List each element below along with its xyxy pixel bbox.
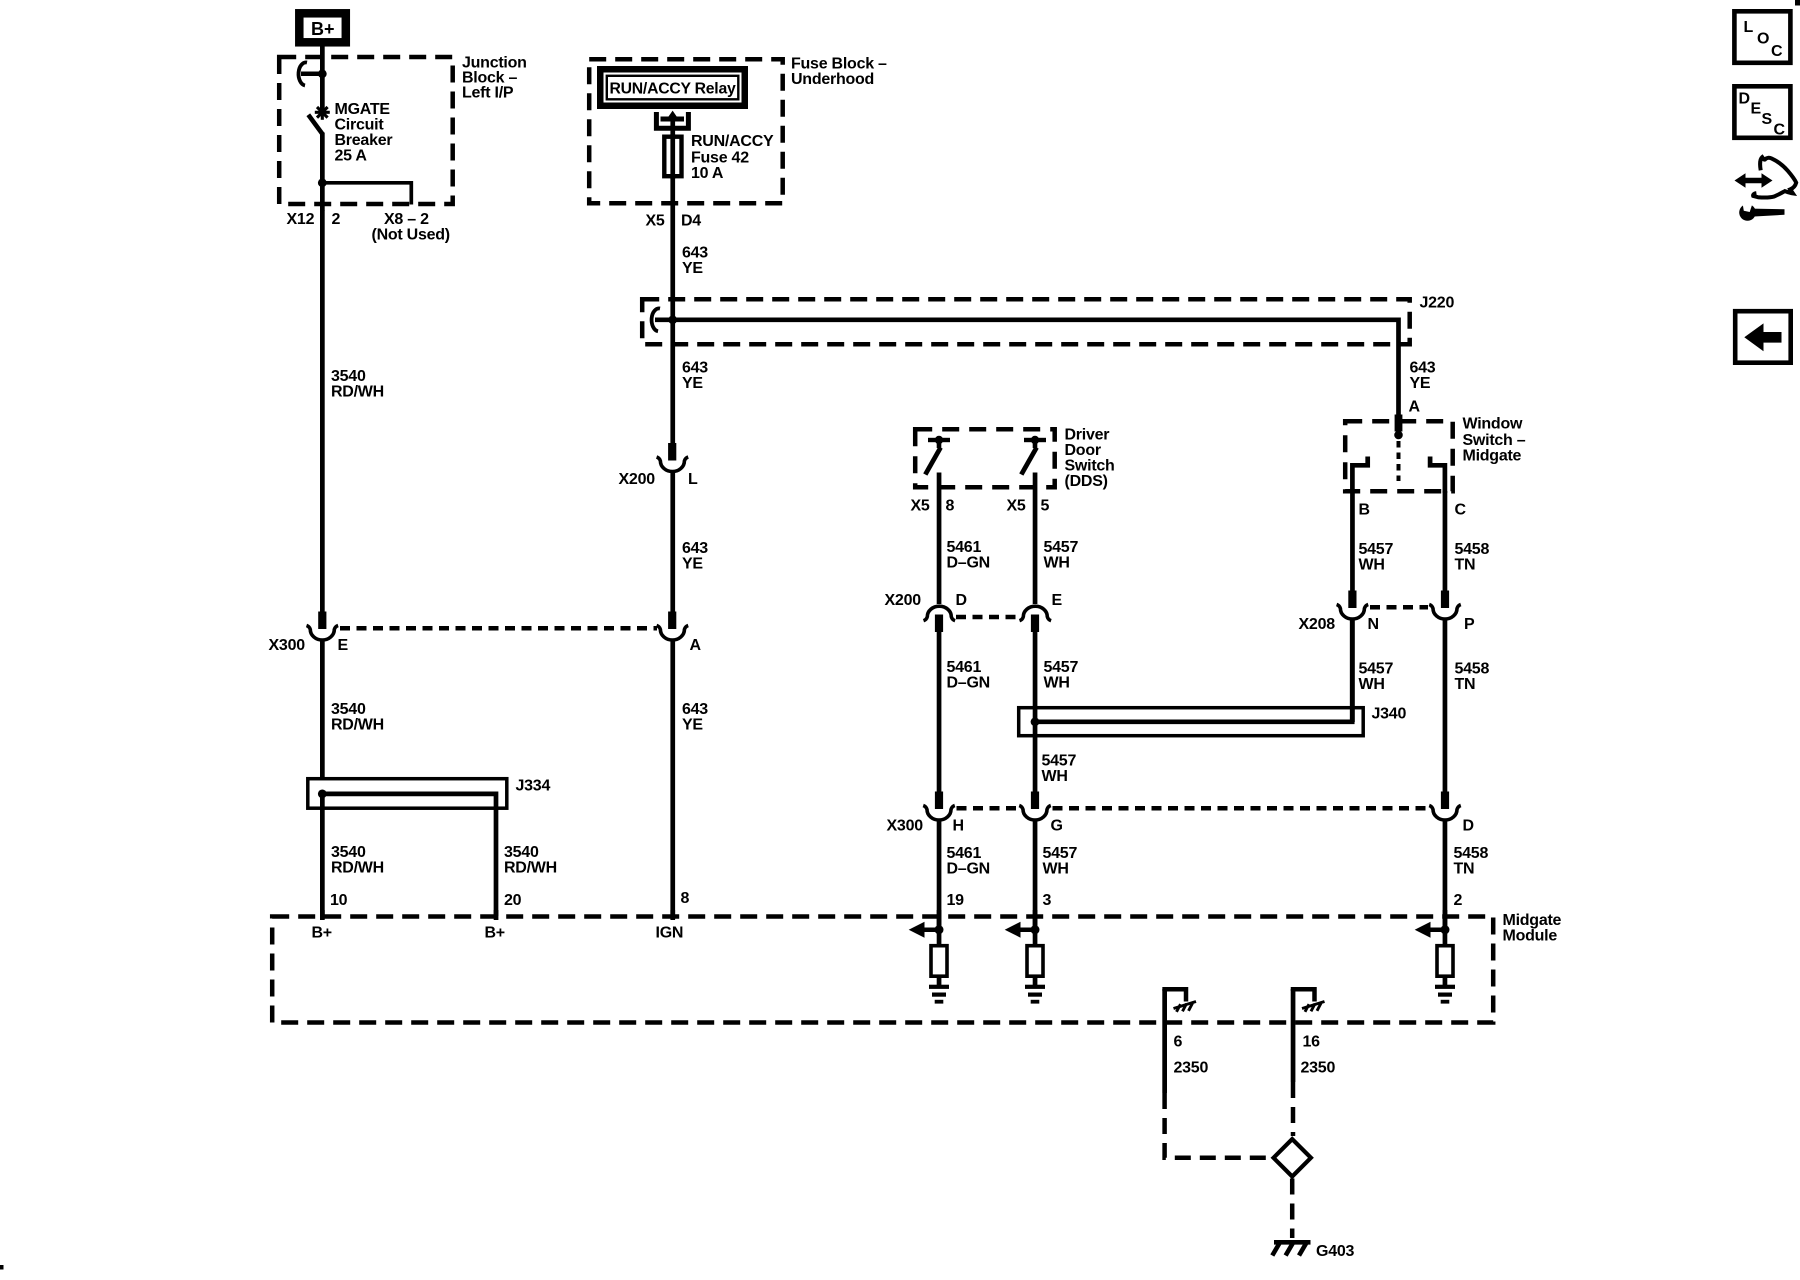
connector X200 pin L (pin + cup) xyxy=(657,443,689,472)
wire: left switch to X5-8 xyxy=(937,473,942,605)
svg-text:B: B xyxy=(1359,502,1370,519)
svg-text:6: 6 xyxy=(1174,1034,1183,1051)
wire 643 YE: X300-A to pin 8 xyxy=(670,639,675,919)
wire: pin 16 lead (solid) xyxy=(1291,989,1296,1082)
node: J334 splice dot xyxy=(318,790,327,799)
module input pin 19: wire, arrow, dot xyxy=(909,910,944,938)
svg-text:(Not Used): (Not Used) xyxy=(372,227,450,244)
pin A entry mark xyxy=(1395,415,1403,432)
load resistor (pin 2) xyxy=(1437,946,1453,977)
junction block - Left I/P (dashed box) xyxy=(279,57,453,204)
svg-text:TN: TN xyxy=(1454,861,1475,878)
wire label 3540 RD/WH xyxy=(331,701,384,734)
svg-text:WH: WH xyxy=(1359,557,1385,574)
wire to ground (pin 2) xyxy=(1443,931,1448,945)
sidebar icon LOC xyxy=(1734,11,1790,63)
load resistor (pin 19) xyxy=(931,946,947,977)
svg-text:RD/WH: RD/WH xyxy=(331,384,384,401)
svg-text:RUN/ACCY: RUN/ACCY xyxy=(691,133,774,150)
node: J220 splice dot xyxy=(668,315,677,324)
svg-text:G403: G403 xyxy=(1316,1243,1354,1260)
svg-text:D: D xyxy=(1739,91,1750,108)
svg-text:5457: 5457 xyxy=(1043,845,1078,862)
relay output contact symbol xyxy=(656,111,688,129)
dashed wire: splice to G403 xyxy=(1290,1179,1295,1239)
splice diamond xyxy=(1274,1139,1311,1176)
circuit numbers 2350 / 2350 xyxy=(1174,1060,1336,1077)
connector X200 pin E (dome + pin below) xyxy=(1020,606,1052,632)
node: junction dot at top of breaker xyxy=(318,69,327,78)
wire 5458: C to X208-P xyxy=(1443,491,1448,591)
wire label 643 YE (right of J220) xyxy=(1410,360,1436,393)
pin numbers 6 / 16 xyxy=(1174,1034,1321,1051)
wire label 5457 WH xyxy=(1044,539,1079,572)
internal ground (pin 19) xyxy=(929,985,949,1004)
wire: J220 down to X200-L xyxy=(670,322,675,444)
wire labels 5457 WH / 5458 TN xyxy=(1359,661,1490,694)
wire label 643 YE (left below J220) xyxy=(682,360,708,393)
wire: J334 down to pin 10 xyxy=(320,794,325,919)
switch contact (right, pin 5) xyxy=(1021,436,1046,475)
pin numbers 19 / 3 xyxy=(947,892,1052,909)
battery feed B+ xyxy=(299,13,346,42)
svg-text:2350: 2350 xyxy=(1174,1060,1209,1077)
svg-text:Door: Door xyxy=(1065,442,1101,459)
junction block label xyxy=(462,55,527,102)
svg-text:X5: X5 xyxy=(646,213,665,230)
svg-text:X8 – 2: X8 – 2 xyxy=(384,211,429,228)
svg-text:3540: 3540 xyxy=(331,701,366,718)
svg-text:X200: X200 xyxy=(619,471,656,488)
connector X300 pin A (pin + cup) xyxy=(657,612,689,641)
dashed mate line X208 N to P xyxy=(1370,605,1428,610)
switch throw contact B (bracket) xyxy=(1352,457,1367,494)
svg-text:D: D xyxy=(1463,818,1474,835)
internal ground (pin 2) xyxy=(1435,985,1455,1004)
svg-text:Circuit: Circuit xyxy=(335,117,385,134)
svg-text:5: 5 xyxy=(1041,498,1050,515)
svg-text:Fuse 42: Fuse 42 xyxy=(691,150,749,167)
wire 5457: X200-E down through J340 to X300-G xyxy=(1033,632,1038,792)
svg-text:8: 8 xyxy=(946,498,955,515)
sidebar icon diagnostic (arrow / wrench) xyxy=(1735,157,1797,221)
svg-text:2: 2 xyxy=(1454,892,1463,909)
internal ground (pin 3) xyxy=(1025,985,1045,1004)
node: branch dot to X8-2 xyxy=(318,178,327,187)
svg-text:5461: 5461 xyxy=(947,659,982,676)
svg-text:TN: TN xyxy=(1455,557,1476,574)
svg-text:RD/WH: RD/WH xyxy=(331,860,384,877)
svg-text:C: C xyxy=(1455,502,1467,519)
wire: J220 horizontal run 643 YE xyxy=(655,320,1399,435)
pin numbers 10 / 20 xyxy=(330,892,522,909)
breaker label xyxy=(335,101,393,165)
svg-text:3: 3 xyxy=(1043,892,1052,909)
svg-text:WH: WH xyxy=(1042,768,1068,785)
wire label 643 YE xyxy=(682,540,708,573)
svg-text:5458: 5458 xyxy=(1455,661,1490,678)
svg-text:E: E xyxy=(1052,592,1063,609)
ground lead pin 6: hook and chassis icon xyxy=(1165,989,1196,1012)
relay box RUN/ACCY Relay xyxy=(597,66,748,109)
wire: right switch to X5-5 xyxy=(1033,473,1038,605)
svg-text:J334: J334 xyxy=(516,778,551,795)
svg-text:B+: B+ xyxy=(311,19,335,39)
wire label 5461 D-GN xyxy=(947,539,990,572)
X300 row labels xyxy=(887,818,1474,835)
hook symbol (wire continues) at junction xyxy=(299,62,322,85)
midgate module (dashed box) xyxy=(272,917,1493,1023)
connector X300 pin H (pin + cup) xyxy=(923,792,955,821)
wire label 3540 RD/WH xyxy=(331,368,384,401)
svg-text:E: E xyxy=(1751,101,1762,118)
svg-text:S: S xyxy=(1762,111,1773,128)
wire: J334 branch to pin 20 xyxy=(322,794,496,916)
fuse label xyxy=(691,133,774,182)
page corner mark xyxy=(1795,0,1800,6)
svg-text:G: G xyxy=(1051,818,1063,835)
wire 5457: X300-G to pin 3 xyxy=(1033,819,1038,932)
circuit breaker MGATE 25A xyxy=(308,105,330,135)
sidebar icon back-arrow xyxy=(1735,311,1791,363)
svg-text:L: L xyxy=(1744,19,1754,36)
node: switch common dot (pin A) xyxy=(1394,431,1403,440)
svg-text:5458: 5458 xyxy=(1455,541,1490,558)
switch throw contact C (bracket) xyxy=(1430,457,1445,494)
svg-text:C: C xyxy=(1774,122,1786,139)
hook symbol at J220 wire end xyxy=(652,308,660,331)
svg-text:5461: 5461 xyxy=(947,845,982,862)
svg-text:Switch: Switch xyxy=(1065,458,1115,475)
svg-text:P: P xyxy=(1464,616,1475,633)
svg-text:B+: B+ xyxy=(485,925,505,942)
dashed mate line X300 E to A xyxy=(340,626,657,631)
dashed wire: pin 16 to splice xyxy=(1291,1082,1296,1136)
svg-text:D–GN: D–GN xyxy=(947,861,990,878)
wire label 5457 WH xyxy=(1044,659,1079,692)
svg-text:20: 20 xyxy=(504,892,522,909)
splice pack J220 (dashed box) xyxy=(642,299,1409,344)
svg-text:5458: 5458 xyxy=(1454,845,1489,862)
svg-text:YE: YE xyxy=(682,556,703,573)
DDS label xyxy=(1065,427,1115,491)
splice J334 (box) xyxy=(308,779,507,809)
connector X208 pin P (pin + cup) xyxy=(1429,591,1461,620)
svg-text:J220: J220 xyxy=(1420,295,1455,312)
node: J340 splice dot xyxy=(1031,717,1040,726)
wire: breaker to X12-2 xyxy=(320,133,325,211)
svg-text:Underhood: Underhood xyxy=(791,71,874,88)
svg-text:YE: YE xyxy=(1410,375,1431,392)
dashed wire: pin 6 to splice xyxy=(1165,1093,1271,1158)
wire label 5458 TN xyxy=(1454,845,1489,878)
wire label 5457 WH (below J340) xyxy=(1042,753,1077,786)
sidebar icon DESC xyxy=(1734,86,1790,138)
wire 5458: X208-P to X300-D xyxy=(1443,618,1448,792)
svg-text:WH: WH xyxy=(1044,675,1070,692)
svg-text:TN: TN xyxy=(1455,676,1476,693)
svg-text:Breaker: Breaker xyxy=(335,132,393,149)
svg-text:(DDS): (DDS) xyxy=(1065,473,1108,490)
svg-text:IGN: IGN xyxy=(656,925,684,942)
pin labels X12 2 / X8-2 xyxy=(287,211,450,244)
window switch label xyxy=(1463,416,1526,465)
svg-text:643: 643 xyxy=(682,540,708,557)
svg-text:10: 10 xyxy=(330,892,348,909)
X300 row labels xyxy=(269,637,349,654)
svg-text:Module: Module xyxy=(1503,927,1558,944)
svg-text:J340: J340 xyxy=(1372,706,1407,723)
connector X300 pin D (pin + cup) xyxy=(1429,792,1461,821)
svg-text:5461: 5461 xyxy=(947,539,982,556)
svg-text:10 A: 10 A xyxy=(691,165,724,182)
page edge speck xyxy=(0,1265,4,1270)
fuse 42 (RUN/ACCY 10A) xyxy=(664,134,681,179)
svg-text:Midgate: Midgate xyxy=(1463,448,1522,465)
pin labels B / C xyxy=(1359,502,1467,519)
svg-text:A: A xyxy=(690,637,702,654)
svg-text:MGATE: MGATE xyxy=(335,101,391,118)
ground G403 symbol xyxy=(1272,1242,1310,1255)
switch contact (left, pin 8) xyxy=(925,436,950,475)
svg-text:X5: X5 xyxy=(1007,498,1026,515)
svg-text:RD/WH: RD/WH xyxy=(331,717,384,734)
svg-text:X12: X12 xyxy=(287,211,315,228)
svg-text:WH: WH xyxy=(1359,676,1385,693)
svg-text:19: 19 xyxy=(947,892,965,909)
svg-text:X208: X208 xyxy=(1299,616,1336,633)
svg-text:D–GN: D–GN xyxy=(947,675,990,692)
svg-text:YE: YE xyxy=(682,260,703,277)
wire 643 YE: X200-L to X300-A xyxy=(670,471,675,613)
X200 L labels xyxy=(619,471,699,488)
svg-text:2: 2 xyxy=(332,211,341,228)
module input pin 3: wire, arrow, dot xyxy=(1005,910,1040,938)
svg-text:Midgate: Midgate xyxy=(1503,912,1562,929)
svg-text:Switch –: Switch – xyxy=(1463,432,1526,449)
svg-text:3540: 3540 xyxy=(331,844,366,861)
connector X300 pin E (pin + cup) xyxy=(307,612,339,641)
svg-text:L: L xyxy=(688,471,698,488)
svg-text:YE: YE xyxy=(682,375,703,392)
splice J340 (box) xyxy=(1019,708,1363,736)
svg-text:5457: 5457 xyxy=(1359,661,1394,678)
pin labels X5 8 / X5 5 xyxy=(911,498,1050,515)
wire: B+ to breaker xyxy=(320,46,325,109)
wire 5458: X300-D to pin 2 xyxy=(1443,819,1448,932)
svg-text:X300: X300 xyxy=(887,818,924,835)
svg-text:643: 643 xyxy=(682,360,708,377)
X200 row labels xyxy=(885,592,1063,609)
svg-text:16: 16 xyxy=(1303,1034,1321,1051)
wire 3540 RD/WH: X12-2 down to X300-E xyxy=(320,210,325,612)
svg-text:5457: 5457 xyxy=(1044,659,1079,676)
svg-text:643: 643 xyxy=(1410,360,1436,377)
wire 5461: X200-D to X300-H xyxy=(937,632,942,792)
svg-text:D4: D4 xyxy=(681,213,701,230)
ground lead pin 16: hook and chassis icon xyxy=(1293,989,1325,1012)
connector X208 pin N (pin + cup) xyxy=(1337,591,1369,620)
svg-text:D–GN: D–GN xyxy=(947,555,990,572)
dashed mate line X200 D to E xyxy=(956,615,1019,620)
wire 3540 RD/WH: X300-E to J334 xyxy=(320,639,325,779)
wire 5457: B to X208-N xyxy=(1350,491,1355,591)
module terminal names B+ B+ IGN xyxy=(312,925,684,942)
wire: X8-2 stub (not used) xyxy=(322,183,411,205)
wire stubs entering module (pins 10,20,8) xyxy=(320,910,675,920)
svg-text:C: C xyxy=(1771,43,1783,60)
connector X200 pin D (dome + pin below) xyxy=(924,606,956,632)
svg-text:Window: Window xyxy=(1463,416,1523,433)
svg-text:B+: B+ xyxy=(312,925,332,942)
wire label 643 YE xyxy=(682,701,708,734)
wire label 5461 D-GN xyxy=(947,659,990,692)
svg-text:RD/WH: RD/WH xyxy=(504,860,557,877)
svg-text:3540: 3540 xyxy=(331,368,366,385)
svg-text:X5: X5 xyxy=(911,498,930,515)
svg-text:3540: 3540 xyxy=(504,844,539,861)
svg-text:643: 643 xyxy=(682,701,708,718)
wire 643 YE: fuse to J220 xyxy=(670,176,675,322)
load resistor (pin 3) xyxy=(1027,946,1043,977)
module input pin 2: wire, arrow, dot xyxy=(1415,910,1450,938)
svg-text:Left I/P: Left I/P xyxy=(462,85,514,102)
wire 5457: X208-N down into J340 xyxy=(1350,618,1355,722)
wire: relay to fuse xyxy=(670,119,675,139)
svg-text:X300: X300 xyxy=(269,637,306,654)
pin labels X5 D4 xyxy=(646,213,702,230)
svg-text:A: A xyxy=(1409,399,1421,416)
dashed switch actuator stub xyxy=(1397,441,1401,481)
svg-text:Driver: Driver xyxy=(1065,427,1110,444)
svg-text:8: 8 xyxy=(681,890,690,907)
svg-text:5457: 5457 xyxy=(1044,539,1079,556)
wire to ground (pin 3) xyxy=(1033,931,1038,945)
svg-text:5457: 5457 xyxy=(1359,541,1394,558)
svg-text:WH: WH xyxy=(1043,861,1069,878)
wire 5461: X300-H to pin 19 xyxy=(937,819,942,932)
svg-text:25 A: 25 A xyxy=(335,148,368,165)
dashed mate line X300 H-G-D xyxy=(957,806,1429,811)
svg-text:N: N xyxy=(1368,616,1379,633)
svg-text:X200: X200 xyxy=(885,592,922,609)
fuse block label xyxy=(791,56,887,89)
wire labels 3540 RD/WH (both branches) xyxy=(331,844,557,877)
svg-text:H: H xyxy=(953,818,964,835)
svg-text:YE: YE xyxy=(682,717,703,734)
wire: pin 6 lead (solid) xyxy=(1162,989,1167,1093)
svg-text:2350: 2350 xyxy=(1301,1060,1336,1077)
svg-text:643: 643 xyxy=(682,245,708,262)
svg-text:D: D xyxy=(956,592,967,609)
svg-text:E: E xyxy=(338,637,349,654)
wire label 643 YE xyxy=(682,245,708,278)
connector X300 pin G (pin + cup) xyxy=(1019,792,1051,821)
wire labels 5457 WH / 5458 TN xyxy=(1359,541,1490,574)
svg-text:WH: WH xyxy=(1044,555,1070,572)
fuse block - underhood (dashed box) xyxy=(589,59,783,203)
X208 row labels xyxy=(1299,616,1476,633)
driver door switch DDS (dashed box) xyxy=(915,429,1054,487)
svg-text:Fuse Block –: Fuse Block – xyxy=(791,56,887,73)
wire: J340 horizontal run to window switch xyxy=(1035,618,1352,722)
svg-text:O: O xyxy=(1757,31,1769,48)
wire labels 5461 D-GN / 5457 WH xyxy=(947,845,1078,878)
window switch - midgate (dashed box) xyxy=(1345,421,1453,491)
svg-text:RUN/ACCY Relay: RUN/ACCY Relay xyxy=(610,81,736,98)
wire to ground (pin 19) xyxy=(937,931,942,945)
svg-text:5457: 5457 xyxy=(1042,753,1077,770)
midgate module label xyxy=(1503,912,1562,945)
